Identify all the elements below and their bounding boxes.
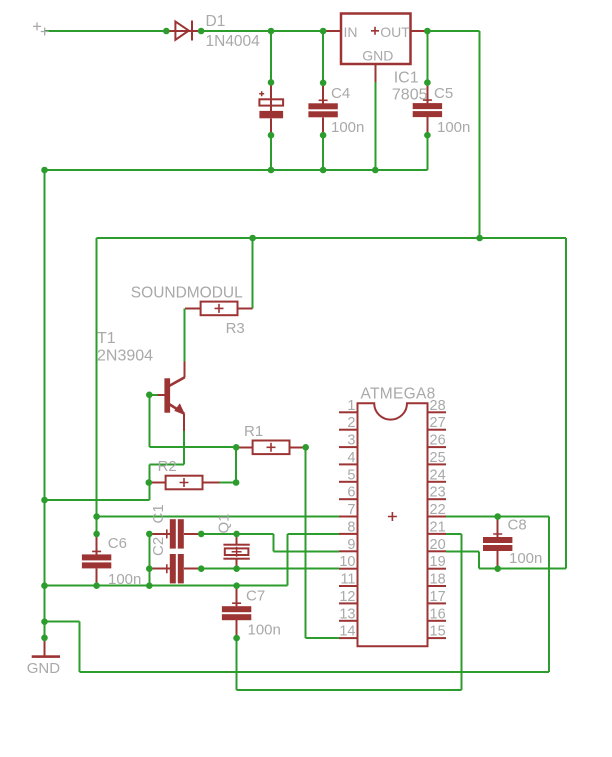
svg-text:100n: 100n <box>331 119 364 136</box>
svg-text:19: 19 <box>430 554 446 570</box>
svg-text:ATMEGA8: ATMEGA8 <box>361 386 436 403</box>
svg-text:11: 11 <box>340 572 355 588</box>
svg-text:9: 9 <box>347 537 355 553</box>
svg-text:T1: T1 <box>97 330 116 347</box>
svg-text:13: 13 <box>339 606 355 622</box>
svg-text:26: 26 <box>430 433 446 449</box>
svg-text:15: 15 <box>430 624 446 640</box>
svg-text:18: 18 <box>430 572 446 588</box>
svg-text:100n: 100n <box>108 571 141 588</box>
svg-text:2: 2 <box>347 415 355 431</box>
svg-text:5: 5 <box>347 467 355 483</box>
svg-text:7: 7 <box>347 502 355 518</box>
svg-text:Q1: Q1 <box>215 513 232 533</box>
svg-text:4: 4 <box>347 450 355 466</box>
svg-text:1N4004: 1N4004 <box>206 33 261 50</box>
svg-text:C6: C6 <box>108 535 127 552</box>
svg-text:100n: 100n <box>248 622 281 639</box>
svg-text:17: 17 <box>430 589 446 605</box>
svg-text:R2: R2 <box>158 458 177 475</box>
svg-text:16: 16 <box>430 606 446 622</box>
svg-text:OUT: OUT <box>380 24 410 40</box>
svg-text:10: 10 <box>339 554 355 570</box>
svg-text:IC1: IC1 <box>394 69 419 86</box>
svg-text:100n: 100n <box>509 550 542 567</box>
svg-text:22: 22 <box>430 502 446 518</box>
svg-text:25: 25 <box>430 450 446 466</box>
svg-text:D1: D1 <box>206 13 226 30</box>
svg-text:C1: C1 <box>150 504 167 523</box>
svg-text:SOUNDMODUL: SOUNDMODUL <box>131 285 243 302</box>
svg-text:C5: C5 <box>434 85 453 102</box>
svg-text:27: 27 <box>430 415 446 431</box>
svg-text:20: 20 <box>430 537 446 553</box>
svg-text:24: 24 <box>430 467 446 483</box>
svg-text:C7: C7 <box>246 588 265 605</box>
svg-text:14: 14 <box>339 624 355 640</box>
svg-text:21: 21 <box>430 519 446 535</box>
svg-text:6: 6 <box>347 485 355 501</box>
svg-text:3: 3 <box>347 433 355 449</box>
svg-text:R1: R1 <box>244 423 263 440</box>
svg-text:C2: C2 <box>150 537 167 556</box>
svg-text:100n: 100n <box>437 119 470 136</box>
svg-text:IN: IN <box>344 24 358 40</box>
svg-text:GND: GND <box>27 660 61 677</box>
svg-text:8: 8 <box>347 519 355 535</box>
svg-text:1: 1 <box>347 398 355 414</box>
svg-text:C8: C8 <box>508 517 527 534</box>
svg-text:2N3904: 2N3904 <box>97 347 153 364</box>
svg-text:12: 12 <box>339 589 355 605</box>
svg-text:7805: 7805 <box>392 87 428 104</box>
svg-text:23: 23 <box>430 485 446 501</box>
svg-text:R3: R3 <box>226 320 245 337</box>
svg-text:GND: GND <box>362 48 393 64</box>
svg-text:C4: C4 <box>331 85 350 102</box>
